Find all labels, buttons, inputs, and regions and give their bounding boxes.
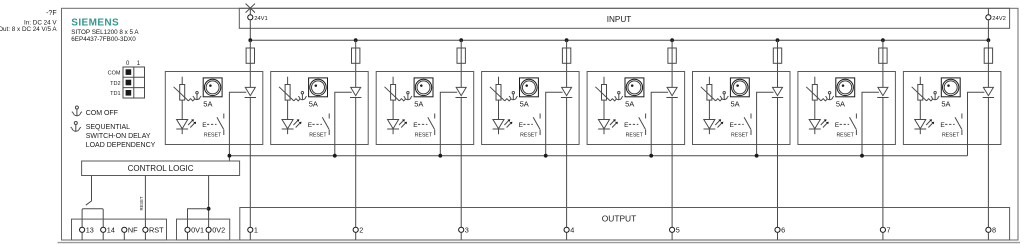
- svg-text:NF: NF: [128, 225, 138, 234]
- svg-text:TD2: TD2: [110, 81, 120, 87]
- wire: control logic to 0V2: [208, 176, 210, 228]
- terminal 0V2: [206, 227, 211, 232]
- rotary current-set knob channel 7: [836, 78, 855, 97]
- diode (output decoupling) channel 4: [561, 87, 572, 97]
- wire: output drop channel 1 (diode to terminal 1): [249, 98, 251, 228]
- junction dot: sense rail channel 2: [333, 154, 337, 158]
- svg-text:0V1: 0V1: [191, 225, 204, 234]
- svg-text:5A: 5A: [836, 99, 845, 108]
- wire: output drop channel 7 (diode to terminal 7): [882, 98, 884, 228]
- adjustment coupling anchor channel 8: [931, 92, 939, 100]
- svg-text:E: E: [624, 122, 629, 129]
- variable resistor (current limiter) channel 3: [385, 77, 406, 120]
- svg-text:SITOP SEL1200 8 x 5 A: SITOP SEL1200 8 x 5 A: [71, 29, 139, 36]
- junction dot: sense rail channel 5: [649, 154, 653, 158]
- output terminal 2: [353, 227, 358, 232]
- wire: terminal 3 stub to frame bottom: [460, 232, 462, 240]
- LED status indicator channel 3: [387, 119, 407, 134]
- wire: terminal 5 stub to frame bottom: [671, 232, 673, 240]
- channel 2 protection module block: [271, 72, 369, 145]
- reset switch contact channel 2: [322, 114, 329, 136]
- output terminal 4: [564, 227, 569, 232]
- junction dot 0V: [207, 207, 211, 211]
- LED status indicator channel 7: [809, 119, 829, 134]
- wire: input drop channel 5 (rail to diode anode): [671, 40, 673, 87]
- wire: output drop channel 8 (diode to terminal 8): [987, 98, 989, 228]
- svg-text:COM: COM: [108, 71, 121, 77]
- wire: terminal 14 stub to frame bottom: [102, 232, 104, 240]
- adjustment coupling anchor channel 7: [826, 92, 834, 100]
- svg-text:-?F: -?F: [46, 10, 57, 17]
- svg-text:7: 7: [887, 225, 891, 234]
- CONTROL LOGIC box: [82, 161, 240, 176]
- wire: output drop channel 6 (diode to terminal 6): [777, 98, 779, 228]
- wire: sense line channel 2: [335, 92, 352, 155]
- output terminal 3: [459, 227, 464, 232]
- output terminal 5: [670, 227, 675, 232]
- adjustment coupling anchor channel 1: [193, 92, 201, 100]
- svg-text:COM OFF: COM OFF: [86, 110, 118, 117]
- channel 1 protection module block: [165, 72, 262, 145]
- svg-text:RESET: RESET: [415, 133, 433, 139]
- wire: sense line channel 1: [229, 92, 246, 161]
- wire: input drop channel 8 (rail to diode anode): [987, 40, 989, 87]
- wire: common sense rail to control logic: [229, 155, 967, 157]
- wire: terminal 7 stub to frame bottom: [882, 232, 884, 240]
- dashed actuation line channel 5: [629, 123, 639, 125]
- junction dot: input rail to fuse F5: [670, 38, 674, 42]
- rotary current-set knob channel 4: [520, 78, 539, 97]
- diode (output decoupling) channel 2: [350, 87, 361, 97]
- svg-text:8: 8: [992, 225, 996, 234]
- channel 7 protection module block: [798, 72, 896, 145]
- signalling contact blade (13-14): [86, 201, 92, 206]
- channel 3 protection module block: [376, 72, 474, 145]
- svg-text:5A: 5A: [414, 99, 423, 108]
- junction dot: input rail to fuse F1: [248, 38, 252, 42]
- terminal 13: [80, 227, 85, 232]
- anchor symbol sequential switch-on: [71, 122, 81, 132]
- wire: sense line channel 3: [440, 92, 457, 155]
- wire: input drop channel 2 (rail to diode anode): [355, 40, 357, 87]
- variable resistor (current limiter) channel 8: [912, 77, 933, 120]
- svg-text:CONTROL LOGIC: CONTROL LOGIC: [128, 164, 194, 173]
- supply connection mark X at 24V1: [246, 4, 255, 13]
- dashed actuation line channel 2: [312, 123, 322, 125]
- svg-text:E: E: [730, 122, 735, 129]
- diode (output decoupling) channel 7: [877, 87, 888, 97]
- reset switch contact channel 6: [744, 114, 751, 136]
- wire: 24V1 to input rail: [249, 20, 251, 40]
- wire: sense line channel 4: [546, 92, 563, 155]
- wire: sense line channel 7: [862, 92, 879, 155]
- adjustment coupling anchor channel 4: [509, 92, 517, 100]
- svg-text:13: 13: [86, 225, 94, 234]
- terminal RST: [143, 227, 148, 232]
- wire: bracket terminal 13 to 14: [82, 209, 103, 228]
- svg-text:5A: 5A: [203, 99, 212, 108]
- terminal 14: [101, 227, 106, 232]
- LED status indicator channel 6: [704, 119, 724, 134]
- svg-text:RESET: RESET: [731, 133, 749, 139]
- wire: input drop channel 3 (rail to diode anode): [460, 40, 462, 87]
- svg-text:5A: 5A: [520, 99, 529, 108]
- diode (output decoupling) channel 1: [245, 87, 256, 97]
- svg-text:Out: 8 x DC 24 V/5 A: Out: 8 x DC 24 V/5 A: [0, 26, 57, 33]
- wire: output drop channel 2 (diode to terminal 2): [355, 98, 357, 228]
- fuse F4 5A electronic trip: [562, 48, 570, 63]
- dashed actuation line channel 4: [523, 123, 533, 125]
- junction dot: input rail to fuse F8: [987, 38, 991, 42]
- wire: output drop channel 3 (diode to terminal 3): [460, 98, 462, 228]
- fuse F2 5A electronic trip: [352, 48, 360, 63]
- svg-text:INPUT: INPUT: [607, 15, 632, 24]
- svg-text:RST: RST: [149, 225, 164, 234]
- fuse F5 5A electronic trip: [668, 48, 676, 63]
- svg-text:5A: 5A: [731, 99, 740, 108]
- channel 8 protection module block: [903, 72, 1001, 145]
- fuse F6 5A electronic trip: [773, 48, 781, 63]
- variable resistor (current limiter) channel 5: [595, 77, 616, 120]
- anchor symbol COM OFF: [72, 106, 82, 116]
- LED status indicator channel 4: [493, 119, 513, 134]
- fuse F8 5A electronic trip: [984, 48, 992, 63]
- diode (output decoupling) channel 5: [666, 87, 677, 97]
- variable resistor (current limiter) channel 2: [279, 77, 300, 120]
- svg-text:3: 3: [465, 225, 469, 234]
- wire: 24V2 stub: [987, 8, 989, 14]
- fuse F3 5A electronic trip: [457, 48, 465, 63]
- svg-text:0V2: 0V2: [212, 225, 225, 234]
- wire: 24V2 to input rail: [987, 20, 989, 40]
- variable resistor (current limiter) channel 6: [701, 77, 722, 120]
- diode (output decoupling) channel 8: [983, 87, 994, 97]
- output terminal 8: [986, 227, 991, 232]
- wire: terminal NF stub to frame bottom: [123, 232, 125, 240]
- svg-text:5A: 5A: [625, 99, 634, 108]
- svg-text:14: 14: [107, 225, 115, 234]
- output terminal 1: [248, 227, 253, 232]
- junction dot: sense rail channel 7: [860, 154, 864, 158]
- svg-text:RESET: RESET: [309, 133, 327, 139]
- LED status indicator channel 8: [914, 119, 934, 134]
- wire: control logic to RST terminal: [144, 176, 146, 228]
- junction dot: input rail to fuse F4: [565, 38, 569, 42]
- junction dot: input rail to fuse F6: [776, 38, 780, 42]
- junction dot: input rail to fuse F2: [354, 38, 358, 42]
- wire: terminal 2 stub to frame bottom: [355, 232, 357, 240]
- output terminal 6: [775, 227, 780, 232]
- rotary current-set knob channel 8: [941, 78, 960, 97]
- svg-text:1: 1: [254, 225, 258, 234]
- fuse F7 5A electronic trip: [879, 48, 887, 63]
- svg-text:24V2: 24V2: [992, 16, 1006, 22]
- reset switch contact channel 8: [955, 114, 962, 136]
- svg-text:5A: 5A: [941, 99, 950, 108]
- DIP switch position squares (all at 0): [126, 69, 132, 75]
- reset switch contact channel 5: [639, 114, 646, 136]
- wire: sense line channel 8: [968, 92, 985, 155]
- wire: +24V input rail: [250, 39, 988, 41]
- svg-text:RESET: RESET: [520, 133, 538, 139]
- fuse F1 5A electronic trip: [246, 48, 254, 63]
- variable resistor (current limiter) channel 4: [490, 77, 511, 120]
- wire: terminal 0V1 stub to frame bottom: [187, 232, 189, 240]
- junction dot: sense rail channel 4: [544, 154, 548, 158]
- reset switch contact channel 3: [428, 114, 435, 136]
- diode (output decoupling) channel 3: [456, 87, 467, 97]
- junction dot: input rail to fuse F3: [459, 38, 463, 42]
- svg-text:4: 4: [570, 225, 574, 234]
- OUTPUT bus bar: [240, 208, 1010, 241]
- LED status indicator channel 2: [282, 119, 302, 134]
- svg-text:5A: 5A: [309, 99, 318, 108]
- dashed actuation line channel 1: [207, 123, 217, 125]
- wire: control logic to signalling contact: [91, 176, 93, 201]
- svg-text:RESET: RESET: [626, 133, 644, 139]
- dashed actuation line channel 6: [734, 123, 744, 125]
- junction dot: input rail to fuse F7: [881, 38, 885, 42]
- junction dot: sense rail channel 1: [228, 154, 232, 158]
- wire: 24V1 stub: [249, 8, 251, 14]
- INPUT bus bar: [239, 8, 1009, 28]
- rotary current-set knob channel 2: [309, 78, 328, 97]
- diode (output decoupling) channel 6: [772, 87, 783, 97]
- wire: terminal 4 stub to frame bottom: [566, 232, 568, 240]
- LED status indicator channel 1: [176, 119, 196, 134]
- wire: terminal RST stub to frame bottom: [144, 232, 146, 240]
- rotary current-set knob channel 1: [203, 78, 222, 97]
- svg-text:RESET: RESET: [836, 133, 854, 139]
- terminal block 0V1 0V2: [177, 219, 230, 240]
- svg-text:E: E: [308, 122, 313, 129]
- reset switch contact channel 4: [533, 114, 540, 136]
- dashed actuation line channel 8: [945, 123, 955, 125]
- svg-text:RESET: RESET: [139, 196, 144, 210]
- svg-text:TD1: TD1: [110, 91, 120, 97]
- svg-text:SIEMENS: SIEMENS: [71, 18, 119, 29]
- svg-text:E: E: [835, 122, 840, 129]
- junction dot: sense rail channel 3: [438, 154, 442, 158]
- channel 4 protection module block: [482, 72, 579, 145]
- wire: output drop channel 4 (diode to terminal 4): [566, 98, 568, 228]
- adjustment coupling anchor channel 6: [720, 92, 728, 100]
- wire: input drop channel 4 (rail to diode anode): [566, 40, 568, 87]
- variable resistor (current limiter) channel 7: [806, 77, 827, 120]
- dashed actuation line channel 7: [840, 123, 850, 125]
- adjustment coupling anchor channel 3: [404, 92, 412, 100]
- wire: terminal 8 stub to frame bottom: [987, 232, 989, 240]
- wire: sense line channel 6: [757, 92, 774, 155]
- wire: output drop channel 5 (diode to terminal 5): [671, 98, 673, 228]
- dashed actuation line channel 3: [418, 123, 428, 125]
- svg-text:SEQUENTIAL: SEQUENTIAL: [86, 124, 130, 131]
- frame drop shadow: [58, 242, 1021, 244]
- wire: terminal 0V2 stub to frame bottom: [208, 232, 210, 240]
- rotary current-set knob channel 6: [730, 78, 749, 97]
- LED status indicator channel 5: [598, 119, 618, 134]
- reset switch contact channel 7: [850, 114, 857, 136]
- svg-text:6: 6: [781, 225, 785, 234]
- terminal NF: [122, 227, 127, 232]
- DIP switch table (COM/TD2/TD1): [123, 67, 145, 98]
- wire: terminal 13 stub to frame bottom: [81, 232, 83, 240]
- svg-text:6EP4437-7FB00-3DX0: 6EP4437-7FB00-3DX0: [71, 36, 136, 43]
- terminal 24V2: [986, 15, 991, 20]
- svg-text:E: E: [202, 122, 207, 129]
- svg-text:5: 5: [676, 225, 680, 234]
- terminal 24V1: [248, 15, 253, 20]
- reset switch contact channel 1: [217, 114, 224, 136]
- wire: terminal 6 stub to frame bottom: [777, 232, 779, 240]
- channel 5 protection module block: [587, 72, 685, 145]
- svg-text:24V1: 24V1: [254, 16, 268, 22]
- rotary current-set knob channel 3: [414, 78, 433, 97]
- channel 6 protection module block: [693, 72, 791, 145]
- svg-text:E: E: [519, 122, 524, 129]
- variable resistor (current limiter) channel 1: [174, 77, 195, 120]
- svg-text:2: 2: [359, 225, 363, 234]
- svg-text:RESET: RESET: [942, 133, 960, 139]
- terminal 0V1: [185, 227, 190, 232]
- wire: input drop channel 7 (rail to diode anode): [882, 40, 884, 87]
- wire: terminal 1 stub to frame bottom: [249, 232, 251, 240]
- wire: sense line channel 5: [651, 92, 668, 155]
- adjustment coupling anchor channel 2: [298, 92, 306, 100]
- svg-text:OUTPUT: OUTPUT: [602, 214, 636, 224]
- svg-text:SWITCH-ON DELAY: SWITCH-ON DELAY: [86, 133, 151, 140]
- adjustment coupling anchor channel 5: [615, 92, 623, 100]
- svg-text:E: E: [940, 122, 945, 129]
- output terminal 7: [880, 227, 885, 232]
- svg-text:RESET: RESET: [204, 133, 222, 139]
- wire: elbow 0V1 branch: [188, 209, 209, 228]
- wire: input drop channel 1 (rail to diode anode): [249, 40, 251, 87]
- svg-text:LOAD DEPENDENCY: LOAD DEPENDENCY: [86, 142, 156, 149]
- rotary current-set knob channel 5: [625, 78, 644, 97]
- svg-text:E: E: [413, 122, 418, 129]
- wire: input drop channel 6 (rail to diode anode): [777, 40, 779, 87]
- terminal block 13 14 NF RST: [72, 219, 167, 240]
- junction dot: sense rail channel 6: [755, 154, 759, 158]
